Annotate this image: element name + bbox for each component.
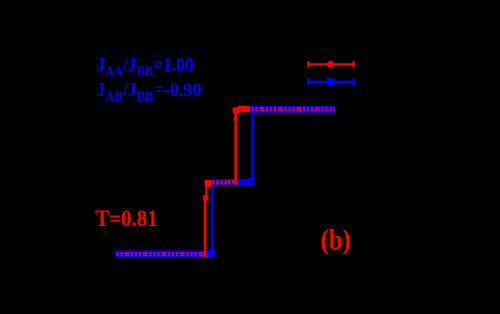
- legend blue errorbar: [308, 78, 353, 85]
- blue transition 1 line: [211, 181, 214, 258]
- top band red dot row upper: [252, 107, 335, 109]
- top band red dot row lower: [252, 109, 335, 111]
- svg-text:JAB/JBB=-0.90: JAB/JBB=-0.90: [96, 79, 201, 104]
- middle band red left blob: [205, 180, 212, 187]
- label (b): [321, 223, 351, 255]
- top band blue base: [250, 106, 335, 113]
- red transition 2 small marker: [234, 116, 237, 118]
- bottom band red dot row upper: [117, 252, 205, 254]
- top band red segment: [233, 107, 240, 113]
- svg-text:T=0.81: T=0.81: [95, 205, 157, 231]
- middle band red dashes: [212, 180, 228, 184]
- middle band blue base: [211, 179, 254, 185]
- label JAA/JBB=1.00: [96, 54, 193, 79]
- label T=0.81: [95, 205, 157, 231]
- red transition 1 marker: [203, 195, 208, 200]
- label JAB/JBB=-0.90: [96, 79, 201, 104]
- bottom band right blue blob: [209, 249, 215, 257]
- bottom band red dot row lower: [117, 255, 205, 257]
- legend red errorbar: [308, 61, 353, 68]
- middle band right blue blob: [247, 178, 254, 185]
- svg-text:(b): (b): [321, 223, 351, 255]
- svg-text:JAA/JBB=1.00: JAA/JBB=1.00: [96, 54, 193, 79]
- red transition 1 line: [204, 199, 206, 258]
- red transition 2 line: [234, 112, 237, 185]
- blue transition 2 line: [251, 113, 254, 180]
- bottom band blue base: [115, 250, 215, 257]
